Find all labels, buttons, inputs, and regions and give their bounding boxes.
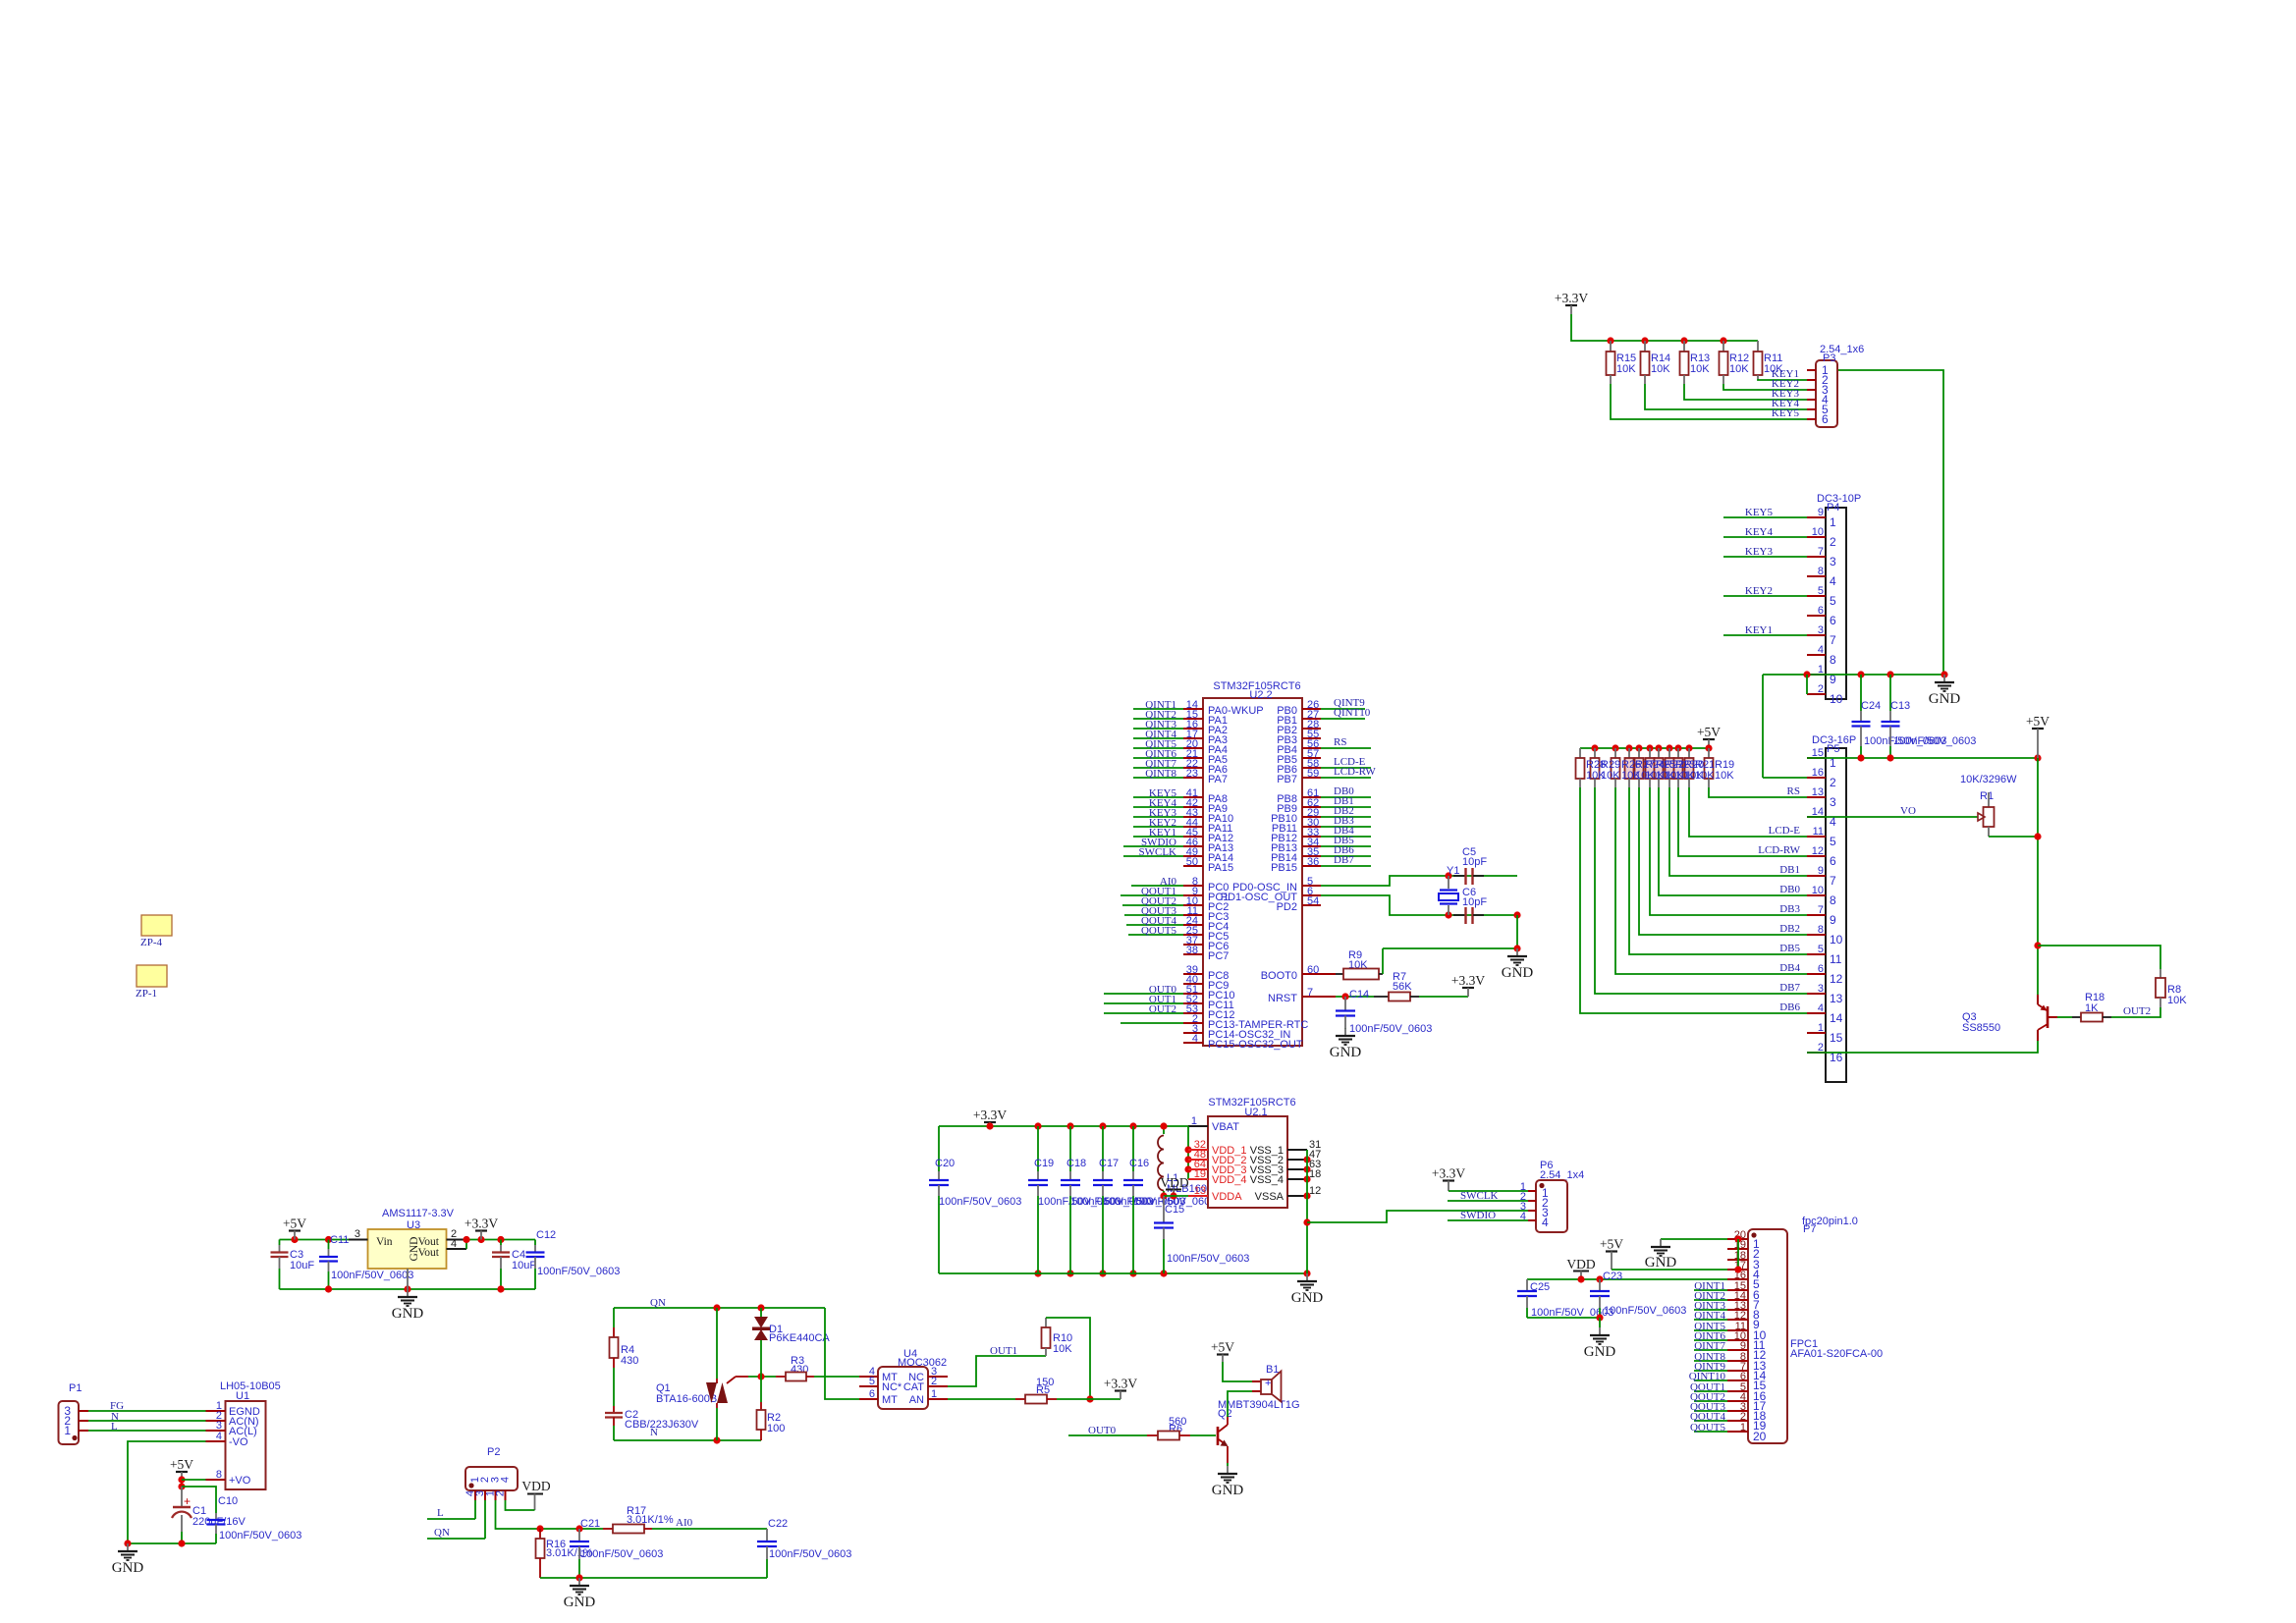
wire R10 loop <box>1046 1318 1090 1399</box>
pad ZP-1 <box>137 965 167 987</box>
svg-text:P1: P1 <box>69 1382 82 1394</box>
pin stub FPC1 pin2 <box>1727 1248 1748 1250</box>
pin 1 AN <box>928 1398 948 1400</box>
ground GND (P2 divider) <box>578 1578 580 1586</box>
svg-text:GND: GND <box>392 1306 424 1322</box>
svg-text:+5V: +5V <box>1600 1237 1623 1252</box>
svg-text:+5V: +5V <box>1211 1340 1234 1355</box>
capacitor C4 <box>500 1240 502 1246</box>
svg-text:+5V: +5V <box>2026 714 2050 729</box>
svg-text:DB2: DB2 <box>1779 923 1800 935</box>
wire U3 GND pin <box>407 1269 409 1289</box>
wire +5V resistor bank bus <box>1580 747 1709 749</box>
svg-text:6: 6 <box>1830 614 1836 627</box>
svg-text:6: 6 <box>869 1388 875 1400</box>
pin 1 EGND <box>206 1410 226 1412</box>
ground GND (U1) <box>127 1543 129 1551</box>
wire R5 to +3.3V <box>1057 1398 1121 1400</box>
svg-text:3: 3 <box>1818 983 1824 995</box>
pin 31 VSS_1 <box>1287 1149 1307 1151</box>
svg-text:VDD: VDD <box>1566 1257 1595 1271</box>
wire QINT4 <box>1133 737 1183 739</box>
pin 39 PC8 <box>1183 973 1203 975</box>
pin 3 PC14-OSC32_IN <box>1183 1032 1203 1034</box>
svg-text:7: 7 <box>1830 874 1836 888</box>
svg-text:15: 15 <box>1830 1031 1843 1045</box>
resistor R24 <box>1638 748 1640 758</box>
wire KEY1 <box>1723 634 1807 636</box>
wire +3.3V output rail <box>466 1239 535 1241</box>
pin 18 VSS_4 <box>1287 1178 1307 1180</box>
resistor R20 <box>1677 748 1679 758</box>
svg-text:NC*: NC* <box>882 1381 902 1393</box>
junction <box>1303 1270 1310 1276</box>
pin stub P1 pin1 <box>79 1430 88 1432</box>
svg-text:C18: C18 <box>1066 1158 1086 1169</box>
junction <box>178 1540 185 1546</box>
svg-text:10: 10 <box>1830 692 1843 706</box>
svg-text:BTA16-600B: BTA16-600B <box>656 1393 717 1405</box>
svg-text:50: 50 <box>1186 856 1198 868</box>
wire QOUT2 <box>1122 904 1183 906</box>
ground GND (U2.1) <box>1306 1273 1308 1281</box>
svg-text:9: 9 <box>1818 507 1824 518</box>
pin stub FPC1 pin6 <box>1727 1289 1748 1291</box>
svg-text:VDD_4: VDD_4 <box>1212 1174 1246 1186</box>
wire DB7 <box>1321 865 1371 867</box>
wire QINT2 <box>1694 1299 1727 1301</box>
junction <box>1184 1165 1191 1172</box>
svg-text:13: 13 <box>1830 992 1843 1005</box>
svg-text:VSS_4: VSS_4 <box>1250 1174 1284 1186</box>
svg-text:60: 60 <box>1307 964 1319 976</box>
junction <box>1625 744 1632 751</box>
ic U2.2 STM32F105RCT6 <box>1203 698 1302 1046</box>
svg-text:AFA01-S20FCA-00: AFA01-S20FCA-00 <box>1790 1348 1883 1360</box>
svg-text:U2.2: U2.2 <box>1249 689 1272 701</box>
svg-text:C15: C15 <box>1165 1204 1184 1216</box>
svg-text:QOUT5: QOUT5 <box>1141 925 1177 937</box>
wire N <box>88 1420 206 1422</box>
pin 3 Vin <box>349 1239 368 1241</box>
pin 49 PA14 <box>1183 855 1203 857</box>
junction <box>1857 754 1864 761</box>
wire VSS vertical <box>1306 1150 1308 1273</box>
junction <box>1160 1122 1167 1129</box>
wire R8 to OUT2 <box>2111 1007 2160 1017</box>
pin 62 PB9 <box>1302 806 1321 808</box>
pin 15 PA1 <box>1183 718 1203 720</box>
svg-text:DB3: DB3 <box>1779 903 1800 915</box>
wire QOUT5 <box>1128 934 1183 936</box>
pin stub FPC1 pin4 <box>1727 1269 1748 1271</box>
svg-text:+3.3V: +3.3V <box>1451 973 1485 988</box>
pin 63 VSS_3 <box>1287 1168 1307 1170</box>
pin 59 PB7 <box>1302 777 1321 779</box>
junction <box>575 1525 582 1532</box>
wire SWCLK <box>1448 1200 1528 1202</box>
wire VO to potentiometer <box>1807 816 1978 818</box>
junction <box>2034 942 2041 948</box>
resistor R22 <box>1658 748 1660 758</box>
capacitor C24 <box>1860 675 1862 711</box>
pin 55 PB3 <box>1302 737 1321 739</box>
svg-text:10K: 10K <box>1053 1343 1072 1355</box>
pin 8 +VO <box>206 1479 226 1481</box>
pin 2 PC13-TAMPER-RTC <box>1183 1022 1203 1024</box>
wire R1 to +5V rail <box>1989 836 2037 838</box>
wire AI0 <box>1131 885 1183 887</box>
svg-text:10K: 10K <box>1601 770 1620 782</box>
svg-text:C14: C14 <box>1349 989 1369 1001</box>
svg-text:DB0: DB0 <box>1779 884 1800 895</box>
wire R19 to P5 <box>1709 787 1807 797</box>
junction <box>713 1436 720 1443</box>
svg-text:5: 5 <box>1830 594 1836 608</box>
svg-text:3: 3 <box>1830 555 1836 568</box>
svg-text:ZP-4: ZP-4 <box>140 937 163 948</box>
ground GND (FPC1 pin1) <box>1660 1239 1662 1247</box>
junction <box>1596 1275 1603 1282</box>
wire P2 pin4 to VDD <box>506 1500 535 1510</box>
junction <box>1341 993 1348 1000</box>
pin 14 PA0-WKUP <box>1183 708 1203 710</box>
pin 2 CAT <box>928 1385 948 1387</box>
capacitor C17 <box>1102 1126 1104 1171</box>
pin 13 VDDA <box>1188 1195 1208 1197</box>
svg-text:+3.3V: +3.3V <box>1555 291 1588 305</box>
wire DB3 <box>1321 826 1371 828</box>
wire LCD-RW <box>1321 777 1371 779</box>
pin stub P4 pin3 <box>1807 556 1826 558</box>
capacitor C20 <box>938 1126 940 1171</box>
pin stub P4 pin10 <box>1807 693 1826 695</box>
junction <box>1577 1275 1584 1282</box>
pin 26 PB0 <box>1302 708 1321 710</box>
svg-text:KEY2: KEY2 <box>1745 585 1773 597</box>
pin 27 PB1 <box>1302 718 1321 720</box>
wire QINT7 <box>1694 1349 1727 1351</box>
svg-text:19: 19 <box>1194 1168 1206 1180</box>
svg-text:59: 59 <box>1307 768 1319 780</box>
pin 57 PB5 <box>1302 757 1321 759</box>
wire R6 to Q2 base <box>1190 1434 1216 1436</box>
svg-text:11: 11 <box>1830 952 1842 966</box>
svg-text:PD2: PD2 <box>1277 901 1297 913</box>
ground GND (Q2) <box>1227 1466 1229 1474</box>
junction <box>325 1285 332 1292</box>
svg-text:9: 9 <box>1830 913 1836 927</box>
wire +5V to FPC1 pin4 <box>1612 1269 1727 1271</box>
svg-text:QN: QN <box>650 1297 666 1309</box>
junction <box>1674 744 1681 751</box>
ground GND (C23) <box>1599 1327 1601 1335</box>
wire ground rail P1 <box>128 1542 216 1544</box>
wire QOUT1 <box>1121 894 1183 896</box>
wire to P3 <box>1684 384 1807 400</box>
wire QINT3 <box>1133 728 1183 730</box>
svg-text:OUT2: OUT2 <box>2123 1005 2151 1017</box>
wire OUT0 <box>1104 993 1183 995</box>
resistor R13 <box>1683 341 1685 352</box>
svg-text:SWCLK: SWCLK <box>1460 1190 1499 1202</box>
svg-text:GND: GND <box>1645 1255 1677 1271</box>
junction <box>1184 1156 1191 1163</box>
junction <box>1591 744 1598 751</box>
junction <box>404 1285 410 1292</box>
svg-text:10K: 10K <box>1616 363 1636 375</box>
pin 9 PC1 <box>1183 894 1203 896</box>
pad ZP-4 <box>141 915 172 936</box>
ground GND (crystal) <box>1516 948 1518 956</box>
wire +5V to B1 <box>1222 1355 1224 1363</box>
pin 25 PC5 <box>1183 934 1203 936</box>
junction <box>1705 744 1712 751</box>
wire R22 to P5 <box>1659 787 1807 895</box>
junction <box>1803 671 1810 677</box>
pin stub P5 pin1 <box>1807 757 1826 759</box>
svg-text:VDD: VDD <box>1160 1175 1188 1190</box>
svg-text:5: 5 <box>869 1376 875 1387</box>
wire to C10 <box>182 1487 216 1513</box>
svg-text:56K: 56K <box>1393 981 1412 993</box>
capacitor C3 <box>279 1240 281 1246</box>
svg-text:6: 6 <box>1818 963 1824 975</box>
pin stub FPC1 pin14 <box>1727 1370 1748 1372</box>
wire Q2 emitter to ground <box>1227 1463 1229 1466</box>
wire Q2 collector to B1 <box>1228 1391 1252 1417</box>
svg-text:SWCLK: SWCLK <box>1139 846 1177 858</box>
wire QINT8 <box>1133 777 1183 779</box>
svg-text:GND: GND <box>1584 1344 1616 1360</box>
svg-text:4: 4 <box>500 1477 512 1483</box>
junction <box>1160 1192 1167 1199</box>
wire Q3 base <box>2057 1016 2072 1018</box>
wire QINT1 <box>1133 708 1183 710</box>
junction <box>1734 1266 1741 1272</box>
wire GND rail U2.1 <box>939 1272 1307 1274</box>
pin stub P4 pin6 <box>1807 615 1826 617</box>
wire QINT5 <box>1133 747 1183 749</box>
svg-text:C20: C20 <box>935 1158 955 1169</box>
svg-text:8: 8 <box>1818 566 1824 577</box>
svg-text:QOUT5: QOUT5 <box>1690 1422 1726 1434</box>
pin stub P6 pin1 <box>1528 1190 1536 1192</box>
pin stub P2 pin2 <box>484 1490 486 1500</box>
wire QOUT5 <box>1694 1431 1727 1433</box>
wire QINT1 <box>1694 1289 1727 1291</box>
pin stub P6 pin3 <box>1528 1210 1536 1212</box>
svg-text:5: 5 <box>1818 944 1824 955</box>
pin stub P5 pin3 <box>1807 796 1826 798</box>
junction <box>124 1540 131 1546</box>
junction <box>178 1476 185 1483</box>
svg-text:DB4: DB4 <box>1779 962 1800 974</box>
wire SWCLK <box>1123 855 1183 857</box>
svg-text:OUT1: OUT1 <box>990 1345 1017 1357</box>
ground GND (P4) <box>1943 675 1945 682</box>
junction <box>1066 1122 1073 1129</box>
svg-text:P6KE440CA: P6KE440CA <box>769 1332 830 1344</box>
svg-text:100nF/50V_0603: 100nF/50V_0603 <box>219 1530 301 1542</box>
svg-text:11: 11 <box>1813 826 1824 838</box>
junction <box>1635 744 1642 751</box>
pin 23 PA7 <box>1183 777 1203 779</box>
svg-text:+: + <box>1265 1378 1271 1389</box>
wire +5V vertical rail <box>2037 758 2039 995</box>
wire KEY5 <box>1723 516 1807 518</box>
svg-text:12: 12 <box>1812 845 1824 857</box>
svg-text:2: 2 <box>931 1376 937 1387</box>
wire gate node to R2 <box>760 1377 762 1402</box>
pin 28 PB2 <box>1302 728 1321 730</box>
pin stub P2 pin3 <box>495 1490 497 1500</box>
pin stub P4 pin9 <box>1807 674 1826 676</box>
svg-text:100nF/50V_0603: 100nF/50V_0603 <box>331 1270 413 1281</box>
svg-text:KEY5: KEY5 <box>1772 407 1800 419</box>
svg-text:OUT2: OUT2 <box>1149 1003 1176 1015</box>
junction <box>1445 872 1451 879</box>
pin 5 PD0-OSC_IN <box>1302 885 1321 887</box>
svg-text:23: 23 <box>1186 768 1198 780</box>
svg-text:10K: 10K <box>1690 363 1710 375</box>
pin 24 PC4 <box>1183 924 1203 926</box>
junction <box>1099 1270 1106 1276</box>
pin stub P4 pin1 <box>1807 516 1826 518</box>
junction <box>1941 671 1947 677</box>
svg-text:10K: 10K <box>1729 363 1749 375</box>
svg-text:10: 10 <box>1812 526 1824 538</box>
wire DB2 <box>1321 816 1371 818</box>
svg-text:PA15: PA15 <box>1208 862 1233 874</box>
resistor R8 <box>2159 969 2161 978</box>
svg-text:1: 1 <box>931 1388 937 1400</box>
junction <box>1303 1218 1310 1225</box>
wire pin1-pin4 link <box>1737 1239 1739 1270</box>
svg-text:+3.3V: +3.3V <box>973 1108 1007 1122</box>
pin stub FPC1 pin20 <box>1727 1431 1748 1433</box>
svg-text:Vout: Vout <box>417 1247 439 1259</box>
wire QN input <box>427 1538 485 1540</box>
wire QOUT2 <box>1694 1400 1727 1402</box>
pin stub FPC1 pin13 <box>1727 1360 1748 1362</box>
junction <box>497 1285 504 1292</box>
pin 5 NC* <box>859 1385 878 1387</box>
pin 3 NC <box>928 1376 948 1378</box>
pin 34 PB13 <box>1302 845 1321 847</box>
svg-text:VDD: VDD <box>521 1479 550 1493</box>
svg-text:AMS1117-3.3V: AMS1117-3.3V <box>382 1208 455 1219</box>
svg-text:PA7: PA7 <box>1208 774 1228 785</box>
pin 33 PB12 <box>1302 836 1321 838</box>
junction <box>1680 337 1687 344</box>
svg-text:3: 3 <box>1830 795 1836 809</box>
wire R3 to U4 <box>814 1376 859 1378</box>
wire QINT6 <box>1133 757 1183 759</box>
svg-text:1: 1 <box>1191 1115 1197 1127</box>
pin stub FPC1 pin7 <box>1727 1299 1748 1301</box>
svg-text:KEY5: KEY5 <box>1745 507 1774 518</box>
svg-text:8: 8 <box>1830 893 1836 907</box>
svg-text:2: 2 <box>1830 535 1836 549</box>
wire R23 to P5 <box>1669 787 1807 876</box>
svg-text:4: 4 <box>1818 644 1824 656</box>
junction <box>1303 1175 1310 1182</box>
junction <box>757 1304 764 1311</box>
capacitor C13 <box>1889 675 1891 711</box>
wire to P3 <box>1758 379 1807 380</box>
junction <box>1034 1270 1041 1276</box>
svg-text:+3.3V: +3.3V <box>465 1217 498 1231</box>
svg-text:N: N <box>650 1427 658 1438</box>
svg-text:38: 38 <box>1186 945 1198 956</box>
pin stub P5 pin8 <box>1807 894 1826 896</box>
svg-text:LCD-E: LCD-E <box>1769 825 1801 837</box>
inductor L1 MLB1608-600 <box>1163 1126 1165 1134</box>
svg-text:KEY1: KEY1 <box>1745 624 1773 636</box>
svg-text:LCD-RW: LCD-RW <box>1758 844 1800 856</box>
pin stub P1 pin2 <box>79 1420 88 1422</box>
wire KEY5 <box>1133 796 1183 798</box>
resistor R12 <box>1722 341 1724 352</box>
wire R28 to P5 <box>1580 787 1807 1013</box>
wire KEY2 <box>1133 826 1183 828</box>
svg-text:220uF/16V: 220uF/16V <box>192 1516 246 1528</box>
capacitor C12 <box>534 1240 536 1246</box>
pin 3 AC(L) <box>206 1430 226 1432</box>
svg-text:C12: C12 <box>536 1229 556 1241</box>
junction <box>2034 754 2041 761</box>
wire RS <box>1321 747 1371 749</box>
wire SWDIO <box>1123 845 1183 847</box>
wire P6 pin1 <box>1449 1190 1528 1192</box>
pin 37 PC6 <box>1183 944 1203 946</box>
wire QOUT3 <box>1694 1410 1727 1412</box>
pin stub P5 pin2 <box>1807 777 1826 779</box>
wire Q3 collector to P5 pin16 <box>1807 1041 2038 1053</box>
wire QINT5 <box>1694 1329 1727 1331</box>
svg-text:10pF: 10pF <box>1462 856 1487 868</box>
svg-text:P4: P4 <box>1827 502 1839 514</box>
pin stub FPC1 pin17 <box>1727 1400 1748 1402</box>
svg-text:C10: C10 <box>218 1495 238 1507</box>
pin 16 PA2 <box>1183 728 1203 730</box>
wire QINT3 <box>1694 1309 1727 1311</box>
pin 19 VDD_4 <box>1188 1178 1208 1180</box>
wire C23 to ground <box>1599 1318 1601 1327</box>
svg-text:10K: 10K <box>2167 995 2187 1006</box>
resistor R19 <box>1708 748 1710 758</box>
wire KEY3 <box>1133 816 1183 818</box>
svg-text:4: 4 <box>1818 1002 1824 1014</box>
svg-text:10pF: 10pF <box>1462 896 1487 908</box>
svg-text:8: 8 <box>216 1469 222 1481</box>
wire QN rail <box>614 1307 825 1309</box>
pin 12 VSSA <box>1287 1195 1307 1197</box>
pin 6 PD1-OSC_OUT <box>1302 894 1321 896</box>
svg-text:C23: C23 <box>1603 1271 1622 1282</box>
pin stub FPC1 pin3 <box>1727 1259 1748 1261</box>
svg-text:10uF: 10uF <box>290 1260 314 1271</box>
resistor R15 <box>1610 341 1612 352</box>
svg-text:2: 2 <box>1818 683 1824 695</box>
svg-text:4: 4 <box>1542 1216 1549 1229</box>
svg-text:Vin: Vin <box>376 1236 393 1248</box>
pin stub P2 pin4 <box>505 1490 507 1500</box>
wire R21 to P5 <box>1689 787 1807 837</box>
pin stub FPC1 pin12 <box>1727 1349 1748 1351</box>
wire FPC1 pin1 to GND <box>1661 1238 1727 1240</box>
